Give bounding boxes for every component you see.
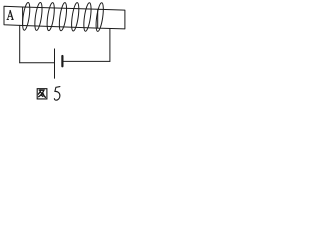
wire bottom left xyxy=(20,62,55,64)
wire right vertical xyxy=(109,29,111,62)
ammeter A1 box xyxy=(4,6,23,25)
inductor L1 winding turn 4 xyxy=(58,2,68,31)
inductor L1 winding turn 5 xyxy=(70,2,80,31)
wire top (coil axis top line) xyxy=(23,7,98,9)
battery B1 negative plate (short) xyxy=(61,56,63,66)
inductor L1 winding turn 7 xyxy=(95,2,105,32)
wire left vertical xyxy=(19,25,21,62)
battery B1 positive plate (long) xyxy=(54,49,56,78)
inductor L1 winding turn 2 xyxy=(33,2,43,31)
wire bottom (coil axis bottom line) xyxy=(23,26,98,29)
wire bottom right xyxy=(63,60,110,62)
inductor L1 winding turn 3 xyxy=(46,2,56,31)
inductor L1 winding turn 1 xyxy=(21,2,31,31)
resistor R1 box xyxy=(98,9,125,29)
ammeter label A xyxy=(7,11,13,20)
inductor L1 winding turn 6 xyxy=(82,2,92,31)
caption number 5 xyxy=(54,87,60,101)
caption character 图 xyxy=(37,89,47,99)
